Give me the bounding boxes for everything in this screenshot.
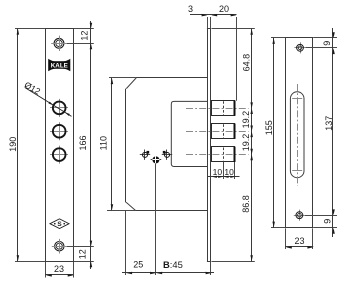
faceplate outline xyxy=(45,28,47,262)
KALE logo xyxy=(48,59,70,72)
dim 12 bottom xyxy=(90,241,93,247)
svg-text:19.2: 19.2 xyxy=(241,134,251,152)
bolt centerlines xyxy=(186,108,249,110)
strike screw hole bottom xyxy=(294,210,305,221)
dim 9 top xyxy=(332,32,335,38)
svg-text:20: 20 xyxy=(219,4,229,14)
svg-text:155: 155 xyxy=(264,120,274,135)
svg-text:9: 9 xyxy=(323,219,333,224)
dim 12 top xyxy=(90,23,93,29)
svg-text:19.2: 19.2 xyxy=(241,111,251,129)
strike slot (obround) xyxy=(290,92,304,178)
svg-text:64.8: 64.8 xyxy=(242,54,252,72)
svg-text:110: 110 xyxy=(99,136,109,150)
dim 19.2 lower xyxy=(250,131,253,137)
diameter leader O12 xyxy=(25,88,71,117)
right chain 9 / 137 / 9 xyxy=(313,37,337,39)
bottom screw hole xyxy=(52,239,67,254)
svg-text:23: 23 xyxy=(54,264,64,274)
faceplate side view xyxy=(207,28,209,261)
svg-text:166: 166 xyxy=(78,135,88,150)
key symbol left xyxy=(140,150,150,160)
svg-text:86.8: 86.8 xyxy=(241,195,251,213)
svg-text:3: 3 xyxy=(188,4,193,14)
lock case outline xyxy=(136,77,208,79)
bolt hole 3 xyxy=(50,146,68,164)
cylinder symbol center xyxy=(151,156,162,163)
S certification diamond xyxy=(50,219,69,229)
svg-text:S: S xyxy=(57,221,62,228)
svg-text:9: 9 xyxy=(322,41,332,46)
right dim chain of faceplate: 12 / 166 / 12 xyxy=(74,28,94,30)
svg-text:12: 12 xyxy=(78,249,88,259)
bolt hole 2 xyxy=(50,122,68,140)
svg-text:10: 10 xyxy=(224,167,234,177)
strike plate outline xyxy=(285,38,287,228)
deadbolts xyxy=(212,101,235,116)
svg-text:190: 190 xyxy=(8,137,18,152)
dim 190 left xyxy=(15,28,45,30)
strike screw hole top xyxy=(294,42,305,53)
svg-text:23: 23 xyxy=(294,236,304,246)
svg-text:10: 10 xyxy=(213,167,223,177)
dim 64.8 xyxy=(250,29,253,35)
dims 25 / B:45 bottom xyxy=(125,211,127,275)
dim 3 / 20 top xyxy=(207,17,209,28)
inner mechanism box xyxy=(171,101,207,166)
right chain dims 64.8 / 19.2 / 19.2 / 86.8 xyxy=(212,28,255,30)
bolt hole 1 xyxy=(50,99,68,117)
svg-text:KALE: KALE xyxy=(51,63,68,70)
key symbol right xyxy=(162,150,172,160)
dim 23 strike plate xyxy=(285,228,287,249)
dim 23 faceplate xyxy=(45,262,47,278)
dim 9 bottom xyxy=(332,209,335,215)
dim 155 xyxy=(271,37,285,39)
svg-text:12: 12 xyxy=(79,31,89,41)
dim 19.2 upper xyxy=(250,108,253,114)
svg-text:25: 25 xyxy=(133,260,143,270)
dim 10 / 10 under bolts xyxy=(223,162,225,179)
dim 86.8 xyxy=(250,155,253,161)
dim 110 left of case xyxy=(109,77,136,79)
svg-text:137: 137 xyxy=(324,116,334,131)
top screw hole xyxy=(51,36,67,51)
svg-text:B:45: B:45 xyxy=(163,259,183,270)
